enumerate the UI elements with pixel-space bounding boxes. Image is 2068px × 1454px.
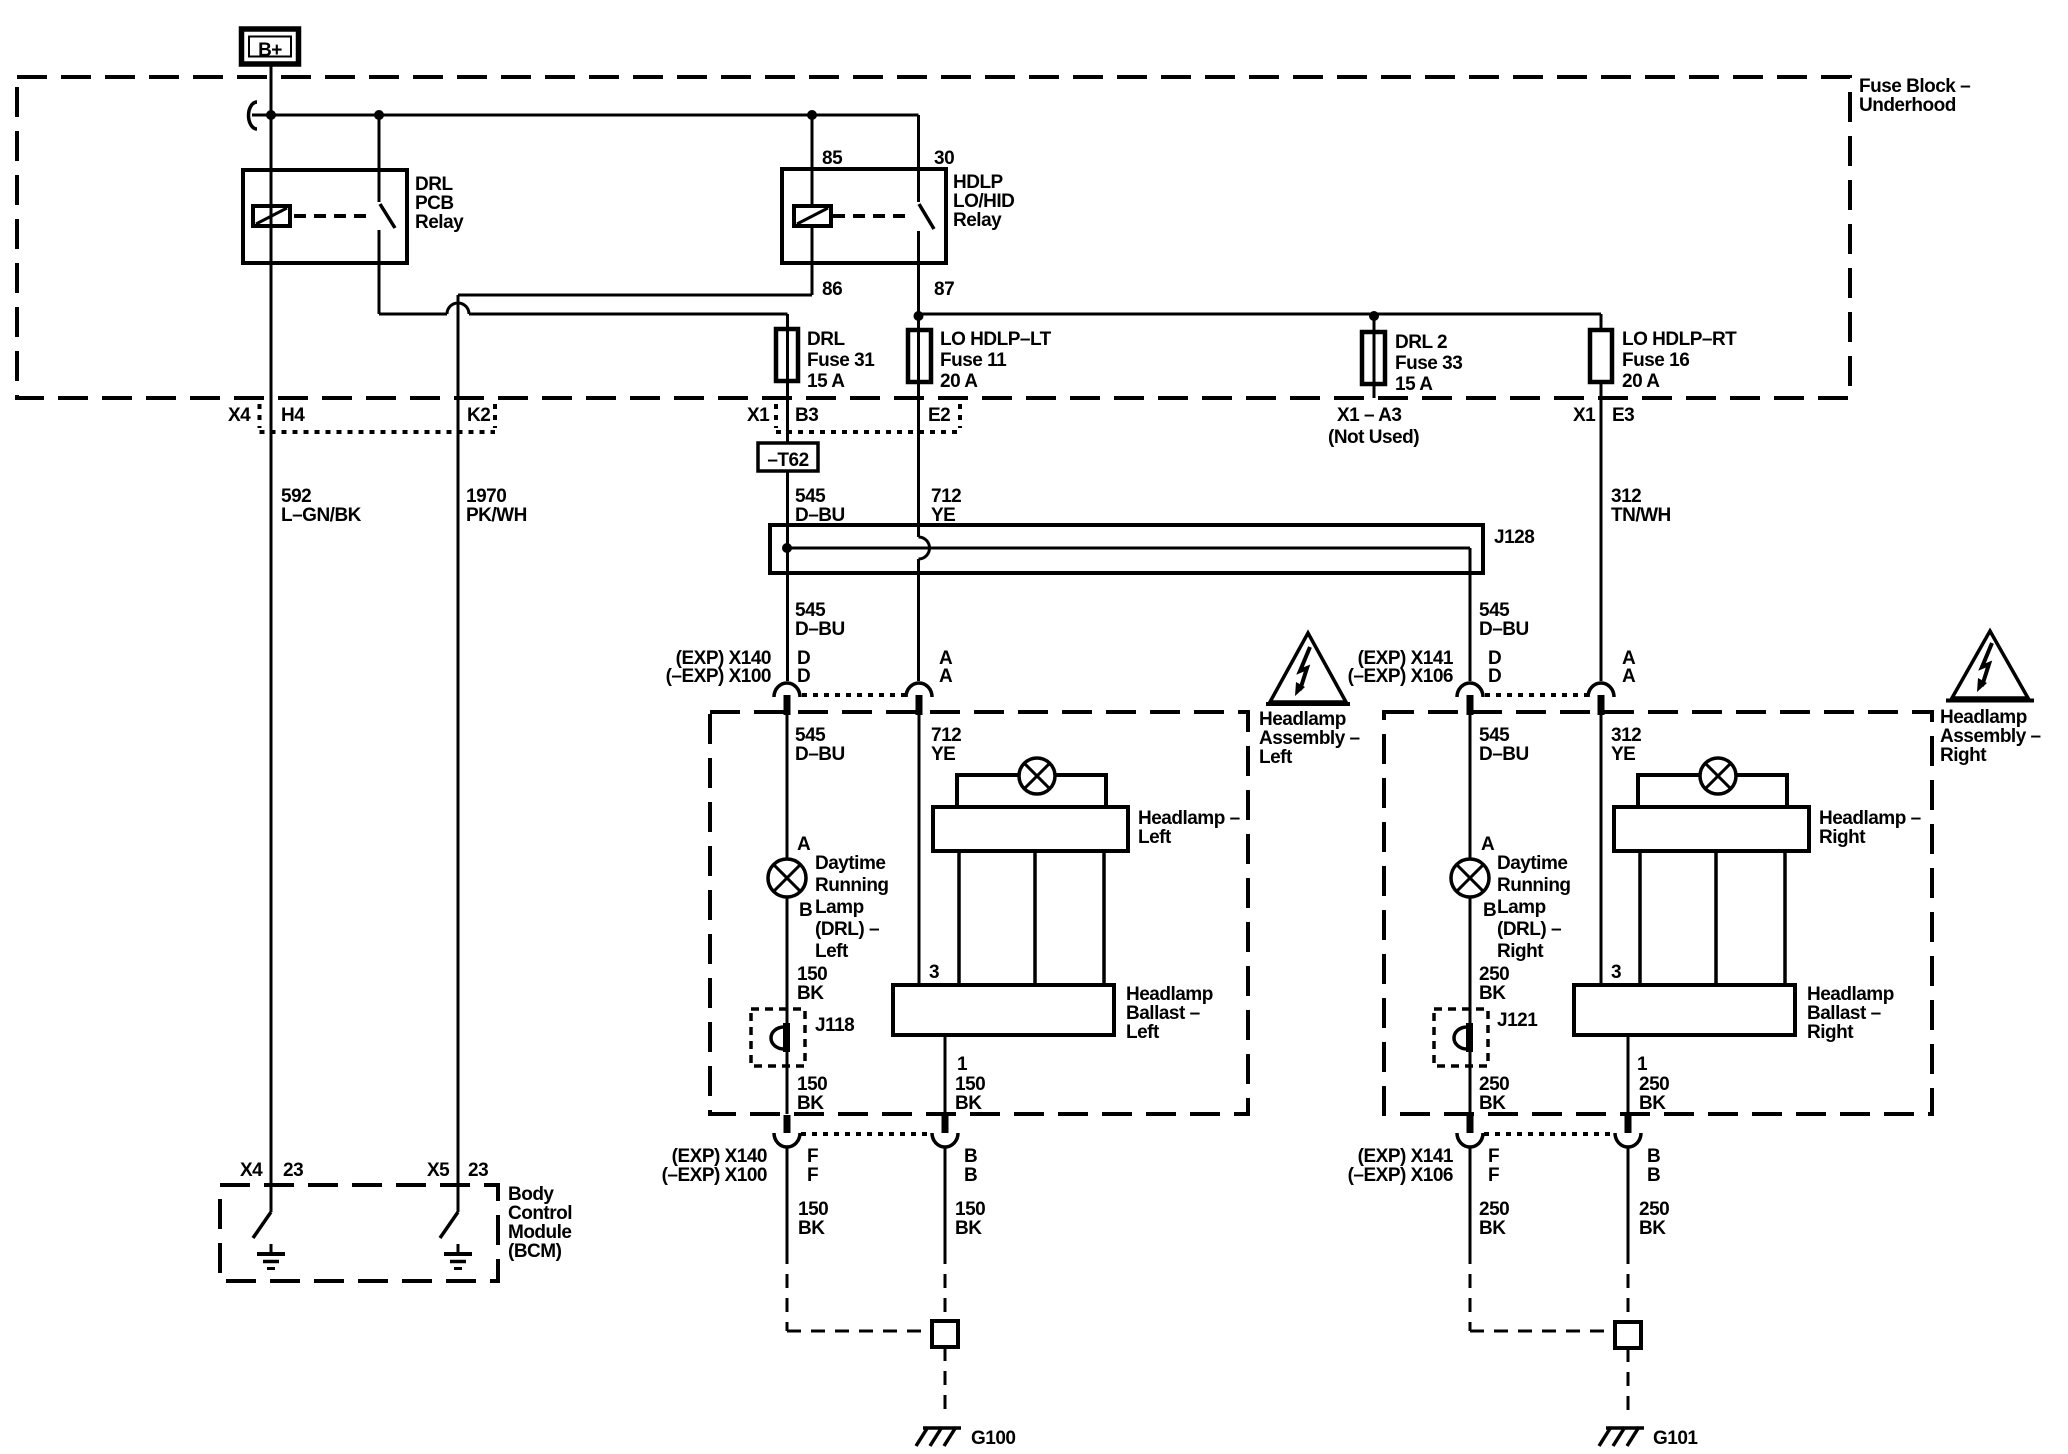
svg-text:E2: E2 [928, 405, 950, 426]
svg-text:Headlamp: Headlamp [1807, 984, 1894, 1005]
svg-text:150: 150 [955, 1199, 985, 1220]
svg-text:Right: Right [1497, 941, 1544, 962]
svg-text:PK/WH: PK/WH [466, 505, 527, 526]
svg-text:Fuse Block –: Fuse Block – [1859, 76, 1970, 97]
svg-text:LO HDLP–RT: LO HDLP–RT [1622, 329, 1737, 350]
svg-text:A: A [1481, 834, 1495, 855]
svg-text:Headlamp: Headlamp [1940, 707, 2027, 728]
svg-text:D–BU: D–BU [795, 619, 845, 640]
svg-text:BK: BK [1639, 1093, 1666, 1114]
svg-text:86: 86 [822, 279, 842, 300]
svg-text:150: 150 [797, 1074, 827, 1095]
svg-text:23: 23 [468, 1160, 488, 1181]
svg-text:Assembly –: Assembly – [1259, 728, 1360, 749]
svg-text:YE: YE [931, 505, 955, 526]
svg-text:DRL: DRL [807, 329, 845, 350]
svg-text:Ballast –: Ballast – [1807, 1003, 1881, 1024]
svg-text:Left: Left [1126, 1022, 1160, 1043]
svg-text:545: 545 [1479, 725, 1510, 746]
svg-text:D–BU: D–BU [1479, 744, 1529, 765]
svg-text:312: 312 [1611, 725, 1641, 746]
svg-text:(DRL) –: (DRL) – [815, 919, 879, 940]
svg-text:Running: Running [815, 875, 889, 896]
svg-text:592: 592 [281, 486, 311, 507]
svg-text:(BCM): (BCM) [508, 1241, 562, 1262]
svg-text:G100: G100 [971, 1428, 1015, 1449]
svg-text:G101: G101 [1653, 1428, 1698, 1449]
svg-text:150: 150 [798, 1199, 828, 1220]
svg-text:250: 250 [1479, 1199, 1509, 1220]
svg-text:1970: 1970 [466, 486, 506, 507]
svg-text:Left: Left [815, 941, 849, 962]
svg-text:BK: BK [797, 983, 824, 1004]
svg-text:DRL 2: DRL 2 [1395, 332, 1447, 353]
svg-text:BK: BK [955, 1218, 982, 1239]
svg-text:B: B [799, 900, 812, 921]
svg-text:Lamp: Lamp [1497, 897, 1546, 918]
svg-text:Right: Right [1807, 1022, 1854, 1043]
svg-text:15 A: 15 A [1395, 374, 1433, 395]
svg-text:L–GN/BK: L–GN/BK [281, 505, 362, 526]
svg-text:Headlamp: Headlamp [1126, 984, 1213, 1005]
svg-text:1: 1 [957, 1054, 968, 1075]
svg-text:(DRL) –: (DRL) – [1497, 919, 1561, 940]
svg-text:TN/WH: TN/WH [1611, 505, 1671, 526]
svg-text:K2: K2 [467, 405, 490, 426]
svg-text:F: F [807, 1165, 818, 1186]
svg-text:Right: Right [1940, 745, 1987, 766]
svg-text:3: 3 [929, 962, 939, 983]
svg-text:D–BU: D–BU [795, 505, 845, 526]
svg-text:X1: X1 [747, 405, 770, 426]
svg-text:Assembly –: Assembly – [1940, 726, 2041, 747]
svg-text:X1: X1 [1573, 405, 1596, 426]
svg-text:85: 85 [822, 148, 843, 169]
svg-text:B: B [1647, 1165, 1660, 1186]
svg-text:BK: BK [955, 1093, 982, 1114]
svg-text:(–EXP) X106: (–EXP) X106 [1348, 666, 1453, 687]
svg-text:J128: J128 [1494, 527, 1534, 548]
svg-text:A: A [1622, 666, 1636, 687]
svg-text:Underhood: Underhood [1859, 95, 1956, 116]
svg-text:YE: YE [931, 744, 955, 765]
svg-text:Headlamp: Headlamp [1259, 709, 1346, 730]
svg-text:250: 250 [1479, 964, 1509, 985]
svg-text:Fuse 31: Fuse 31 [807, 350, 875, 371]
svg-text:20 A: 20 A [940, 371, 978, 392]
svg-text:(–EXP) X100: (–EXP) X100 [662, 1165, 767, 1186]
svg-text:(–EXP) X106: (–EXP) X106 [1348, 1165, 1453, 1186]
svg-text:1: 1 [1637, 1054, 1648, 1075]
svg-text:A: A [797, 834, 811, 855]
svg-text:545: 545 [795, 600, 826, 621]
svg-text:X5: X5 [427, 1160, 450, 1181]
svg-text:Fuse 11: Fuse 11 [940, 350, 1007, 371]
svg-text:Control: Control [508, 1203, 572, 1224]
svg-text:X4: X4 [240, 1160, 263, 1181]
svg-text:X4: X4 [228, 405, 251, 426]
svg-text:E3: E3 [1612, 405, 1634, 426]
svg-text:BK: BK [797, 1093, 824, 1114]
svg-text:712: 712 [931, 486, 961, 507]
svg-text:J118: J118 [815, 1015, 854, 1036]
svg-text:Fuse 16: Fuse 16 [1622, 350, 1689, 371]
svg-text:B: B [964, 1165, 977, 1186]
svg-text:Daytime: Daytime [815, 853, 885, 874]
svg-text:(EXP) X141: (EXP) X141 [1358, 1146, 1454, 1167]
svg-text:J121: J121 [1497, 1010, 1538, 1031]
svg-text:YE: YE [1611, 744, 1635, 765]
svg-text:D: D [1488, 666, 1501, 687]
svg-text:Fuse 33: Fuse 33 [1395, 353, 1462, 374]
svg-text:Relay: Relay [415, 212, 464, 233]
svg-text:LO HDLP–LT: LO HDLP–LT [940, 329, 1052, 350]
svg-text:D: D [797, 666, 810, 687]
svg-text:BK: BK [1479, 983, 1506, 1004]
svg-text:Left: Left [1138, 827, 1172, 848]
svg-text:PCB: PCB [415, 193, 454, 214]
svg-text:3: 3 [1611, 962, 1621, 983]
svg-text:DRL: DRL [415, 174, 453, 195]
svg-text:Right: Right [1819, 827, 1866, 848]
svg-text:250: 250 [1639, 1074, 1669, 1095]
svg-text:20 A: 20 A [1622, 371, 1660, 392]
svg-text:312: 312 [1611, 486, 1641, 507]
svg-text:545: 545 [795, 486, 826, 507]
svg-text:D–BU: D–BU [795, 744, 845, 765]
svg-text:150: 150 [955, 1074, 985, 1095]
svg-text:Body: Body [508, 1184, 554, 1205]
svg-text:B: B [964, 1146, 977, 1167]
svg-text:(–EXP) X100: (–EXP) X100 [666, 666, 771, 687]
svg-text:250: 250 [1479, 1074, 1509, 1095]
svg-text:Daytime: Daytime [1497, 853, 1567, 874]
svg-text:30: 30 [934, 148, 954, 169]
svg-text:Left: Left [1259, 747, 1293, 768]
svg-text:B: B [1647, 1146, 1660, 1167]
svg-text:LO/HID: LO/HID [953, 191, 1014, 212]
svg-text:Ballast –: Ballast – [1126, 1003, 1200, 1024]
svg-text:–T62: –T62 [767, 450, 808, 471]
svg-text:15 A: 15 A [807, 371, 845, 392]
svg-text:B: B [1483, 900, 1496, 921]
svg-text:545: 545 [1479, 600, 1510, 621]
svg-text:712: 712 [931, 725, 961, 746]
svg-text:23: 23 [283, 1160, 303, 1181]
svg-text:Headlamp –: Headlamp – [1138, 808, 1240, 829]
svg-text:150: 150 [797, 964, 827, 985]
svg-text:87: 87 [934, 279, 954, 300]
svg-text:(Not Used): (Not Used) [1328, 427, 1419, 448]
svg-text:BK: BK [1639, 1218, 1666, 1239]
svg-text:Lamp: Lamp [815, 897, 864, 918]
svg-text:B3: B3 [795, 405, 818, 426]
svg-text:F: F [1488, 1165, 1499, 1186]
svg-text:250: 250 [1639, 1199, 1669, 1220]
svg-text:F: F [1488, 1146, 1499, 1167]
svg-text:X1 – A3: X1 – A3 [1337, 405, 1401, 426]
svg-text:B+: B+ [258, 40, 282, 61]
svg-text:Headlamp –: Headlamp – [1819, 808, 1921, 829]
svg-text:H4: H4 [281, 405, 305, 426]
svg-text:Running: Running [1497, 875, 1571, 896]
svg-text:HDLP: HDLP [953, 172, 1004, 193]
svg-text:545: 545 [795, 725, 826, 746]
svg-text:D–BU: D–BU [1479, 619, 1529, 640]
svg-text:Module: Module [508, 1222, 572, 1243]
svg-text:A: A [939, 666, 953, 687]
svg-text:BK: BK [1479, 1093, 1506, 1114]
svg-text:F: F [807, 1146, 818, 1167]
svg-text:Relay: Relay [953, 210, 1002, 231]
svg-text:(EXP) X140: (EXP) X140 [672, 1146, 767, 1167]
svg-text:BK: BK [798, 1218, 825, 1239]
svg-text:BK: BK [1479, 1218, 1506, 1239]
